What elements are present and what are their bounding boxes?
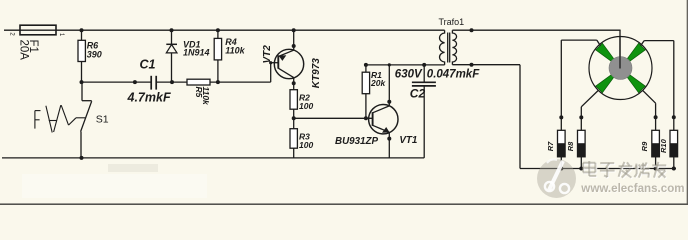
- label 20A: [18, 40, 30, 61]
- label VT2: [262, 45, 273, 64]
- node secondary bottom: [470, 63, 474, 67]
- wire R1 bottom: [365, 94, 367, 119]
- wire mid-right rail: [366, 64, 445, 66]
- svg-text:KT973: KT973: [311, 58, 322, 88]
- resistor R3: [290, 129, 297, 149]
- wire R7 lead: [560, 117, 562, 130]
- node R8 rail: [579, 167, 583, 171]
- node top rail R4: [216, 28, 220, 32]
- svg-text:R10: R10: [659, 138, 668, 153]
- distributor blades: [596, 43, 645, 92]
- actuator arrow V: [46, 105, 61, 132]
- svg-text:R7: R7: [546, 141, 555, 151]
- svg-text:4.7mkF: 4.7mkF: [127, 90, 171, 104]
- label VD1: [183, 39, 201, 49]
- wire R6 bottom: [81, 62, 83, 83]
- node R1 base net: [364, 116, 368, 120]
- label VT1: [399, 135, 417, 146]
- transformer Trafo1 primary winding: [440, 30, 445, 65]
- wire base net: [294, 117, 373, 119]
- pin 1 label: [58, 33, 64, 37]
- label KT973: [311, 58, 322, 88]
- wire NW output: [561, 40, 600, 117]
- wire top rail left section: [4, 29, 445, 31]
- label R10: [659, 138, 668, 153]
- resistor R4: [214, 38, 221, 60]
- label BU931ZP: [335, 136, 378, 147]
- node middle rail stray: [133, 80, 137, 84]
- node VT1 emitter: [387, 137, 391, 141]
- wire VT1 emitter: [388, 132, 390, 158]
- label 390: [87, 50, 102, 60]
- actuator crossbar: [49, 120, 57, 122]
- wire secondary bottom: [452, 65, 520, 169]
- resistor R6: [78, 40, 85, 61]
- svg-text:100: 100: [299, 140, 313, 150]
- resistor R5: [187, 79, 210, 85]
- node R9 top: [654, 115, 658, 119]
- wire R4 top: [217, 30, 219, 38]
- label 0.047mkF: [427, 68, 480, 80]
- wire VT2 collector down: [293, 78, 295, 90]
- transistor VT1: [369, 105, 398, 134]
- label S1: [96, 113, 109, 125]
- wire middle rail a: [82, 81, 152, 83]
- node R7 top: [559, 115, 563, 119]
- label R7: [546, 141, 555, 151]
- wire top rail right section: [452, 29, 620, 31]
- wire bottom rail right: [520, 168, 676, 170]
- spark plug R10: [670, 130, 678, 157]
- distributor hub: [609, 57, 632, 80]
- spark plug R8: [578, 130, 586, 157]
- label R1: [371, 70, 382, 80]
- wire SW output: [581, 90, 598, 117]
- wire SE output: [643, 90, 656, 117]
- label R4: [225, 37, 237, 47]
- wire middle rail b: [156, 81, 187, 83]
- node R6 bottom junction: [80, 80, 84, 84]
- svg-text:R8: R8: [566, 141, 575, 151]
- node R10 rail: [672, 167, 676, 171]
- svg-text:R9: R9: [640, 141, 649, 151]
- svg-text:1N914: 1N914: [183, 48, 210, 58]
- transistor VT2: [274, 49, 303, 78]
- capacitor C1: [151, 76, 156, 90]
- wire VD1 bottom: [171, 53, 173, 82]
- node secondary top: [470, 28, 474, 32]
- node VT2 base: [269, 61, 272, 64]
- wire R10 bottom: [673, 157, 675, 169]
- node R7 rail: [559, 167, 563, 171]
- node VT2 collector pin: [292, 81, 296, 85]
- node top rail VD1: [170, 28, 174, 32]
- transformer Trafo1 core: [448, 33, 450, 63]
- watermark remnant: [22, 164, 207, 198]
- label R6: [87, 41, 99, 51]
- node R1 top: [364, 63, 368, 67]
- wire R6 top: [81, 30, 83, 40]
- wire R8 lead: [580, 117, 582, 130]
- svg-text:0.047mkF: 0.047mkF: [427, 68, 480, 80]
- label 4.7mkF: [127, 90, 171, 104]
- wire R8 bottom: [580, 157, 582, 169]
- svg-text:www.elecfans.com: www.elecfans.com: [580, 182, 684, 195]
- svg-text:20A: 20A: [18, 40, 30, 61]
- wire S1 top: [81, 82, 83, 101]
- node base net: [292, 116, 296, 120]
- svg-text:C2: C2: [410, 87, 426, 101]
- svg-text:110k: 110k: [225, 45, 245, 55]
- border bottom: [0, 203, 688, 205]
- node R9 rail: [654, 167, 658, 171]
- spark plug R7: [558, 130, 566, 157]
- node top rail R6: [80, 28, 84, 32]
- label 110k R5: [201, 87, 211, 107]
- svg-text:BU931ZP: BU931ZP: [335, 136, 378, 147]
- node top rail VT2: [292, 28, 296, 32]
- wire C2 top: [423, 65, 425, 82]
- distributor rotor housing: [589, 37, 652, 100]
- label 1N914: [183, 48, 210, 58]
- svg-text:100: 100: [299, 101, 313, 111]
- border right: [686, 0, 688, 205]
- svg-text:VT1: VT1: [399, 135, 417, 146]
- wire distributor feed drop: [619, 30, 621, 68]
- svg-text:630V: 630V: [395, 68, 423, 80]
- wire R9 lead: [655, 117, 657, 130]
- svg-text:110k: 110k: [201, 87, 211, 107]
- node VT1 collector pin: [387, 100, 391, 104]
- label 630V: [395, 68, 423, 80]
- node middle rail VD1: [170, 80, 174, 84]
- wire R1 top: [365, 65, 367, 72]
- capacitor C2: [412, 82, 436, 86]
- node middle rail R4: [216, 80, 220, 84]
- wire R2-R3: [293, 109, 295, 129]
- wire VD1 top: [171, 30, 173, 44]
- switch S1: [81, 101, 92, 158]
- label F1: [27, 40, 39, 53]
- wire bottom rail left: [2, 157, 424, 159]
- watermark logo and text: [537, 159, 685, 198]
- label 110k: [225, 45, 245, 55]
- spark plug R9: [652, 130, 660, 157]
- node R8 top: [579, 115, 583, 119]
- label Trafo1: [439, 17, 465, 27]
- transformer Trafo1 secondary winding: [452, 30, 456, 64]
- label 20k: [370, 78, 386, 88]
- wire VT2 top: [293, 30, 295, 50]
- label C1: [140, 57, 156, 71]
- svg-text:C1: C1: [140, 57, 156, 71]
- wire VT2 base link: [271, 63, 279, 82]
- label R3: [299, 132, 310, 142]
- wire R10 lead: [673, 117, 675, 130]
- svg-text:S1: S1: [96, 113, 109, 125]
- node VT2 emitter pin: [292, 44, 296, 48]
- label R2: [299, 93, 310, 103]
- actuator linkage: [61, 105, 86, 125]
- svg-text:20k: 20k: [370, 78, 386, 88]
- node S1 bottom: [80, 156, 84, 160]
- wire R9 bottom: [655, 157, 657, 169]
- resistor R1: [362, 72, 369, 94]
- label R8: [566, 141, 575, 151]
- wire R3 bottom: [293, 148, 295, 158]
- wire NE output: [641, 41, 674, 118]
- label C2: [410, 87, 426, 101]
- node R10 top: [672, 115, 676, 119]
- wire R4 bottom: [217, 60, 219, 82]
- wire R7 bottom: [560, 157, 562, 169]
- node VT1 collector rail: [388, 63, 391, 66]
- wire hub feed: [619, 36, 621, 68]
- label 100 R3: [299, 140, 313, 150]
- pin 2 label: [9, 32, 15, 36]
- resistor R2: [290, 90, 297, 110]
- actuator bracket: [35, 111, 41, 129]
- label R9: [640, 141, 649, 151]
- label 100 R2: [299, 101, 313, 111]
- svg-text:Trafo1: Trafo1: [439, 17, 465, 27]
- diode VD1: [166, 44, 177, 53]
- wire VT1 collector: [388, 65, 390, 106]
- wire C2 bottom: [423, 86, 425, 158]
- svg-text:390: 390: [87, 50, 102, 60]
- svg-text:VT2: VT2: [262, 45, 273, 64]
- fuse F1: [20, 25, 56, 35]
- wire middle rail c: [210, 81, 271, 83]
- label R5: [194, 87, 204, 98]
- node C2 rail: [422, 63, 426, 67]
